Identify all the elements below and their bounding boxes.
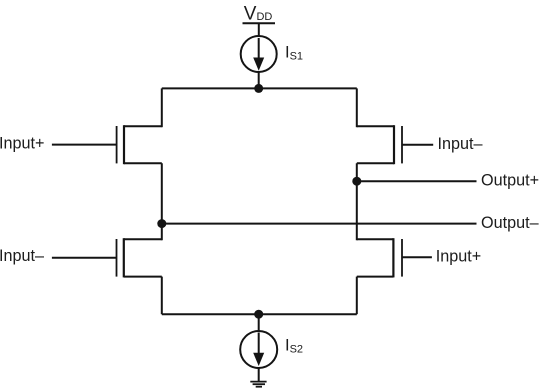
wire M3 gate lead [52,257,117,259]
current source IS1 [241,36,277,72]
wire M1 gate lead [52,144,117,146]
junction dot node Output- [157,219,166,228]
svg-text:IS1: IS1 [285,43,303,62]
wire M3 source to bottom rail [161,277,163,315]
current source IS2 [240,331,277,368]
svg-text:IS2: IS2 [285,337,303,356]
transistor M1 (top-left) [117,125,162,164]
wire M4 source to bottom rail [356,277,358,315]
svg-text:Input+: Input+ [0,134,44,152]
wire Output- [162,223,477,225]
top rail wire [162,87,357,89]
wire M4 gate lead [402,256,432,258]
wire IS1 bottom to top rail [258,72,260,89]
junction dot node Output+ [352,177,361,186]
wire VDD bar to IS1 top [258,23,260,37]
transistor M4 (bottom-right) [357,238,402,277]
ground symbol [250,382,266,387]
junction dot on bottom rail [254,310,263,319]
wire M1 source down to node Output- [161,163,163,240]
wire M2 source down to node Output+ and to M4 drain [356,163,358,240]
transistor M2 (top-right) [357,125,402,164]
svg-text:Output–: Output– [481,214,539,232]
bottom rail wire [162,313,357,315]
transistor M3 (bottom-left) [117,238,162,277]
wire top rail to M2 drain [356,88,358,127]
junction dot on top rail [254,84,263,93]
svg-text:VDD: VDD [244,4,273,25]
VDD supply bar [243,22,276,24]
wire top rail to M1 drain [161,88,163,127]
svg-text:Input–: Input– [438,135,483,153]
svg-text:Input+: Input+ [436,248,481,266]
wire Output+ [357,180,477,182]
wire IS2 to ground [258,368,260,382]
wire M2 gate lead [402,144,433,146]
wire bottom rail to IS2 [258,314,260,331]
svg-text:Input–: Input– [0,247,44,265]
svg-text:Output+: Output+ [481,172,539,190]
